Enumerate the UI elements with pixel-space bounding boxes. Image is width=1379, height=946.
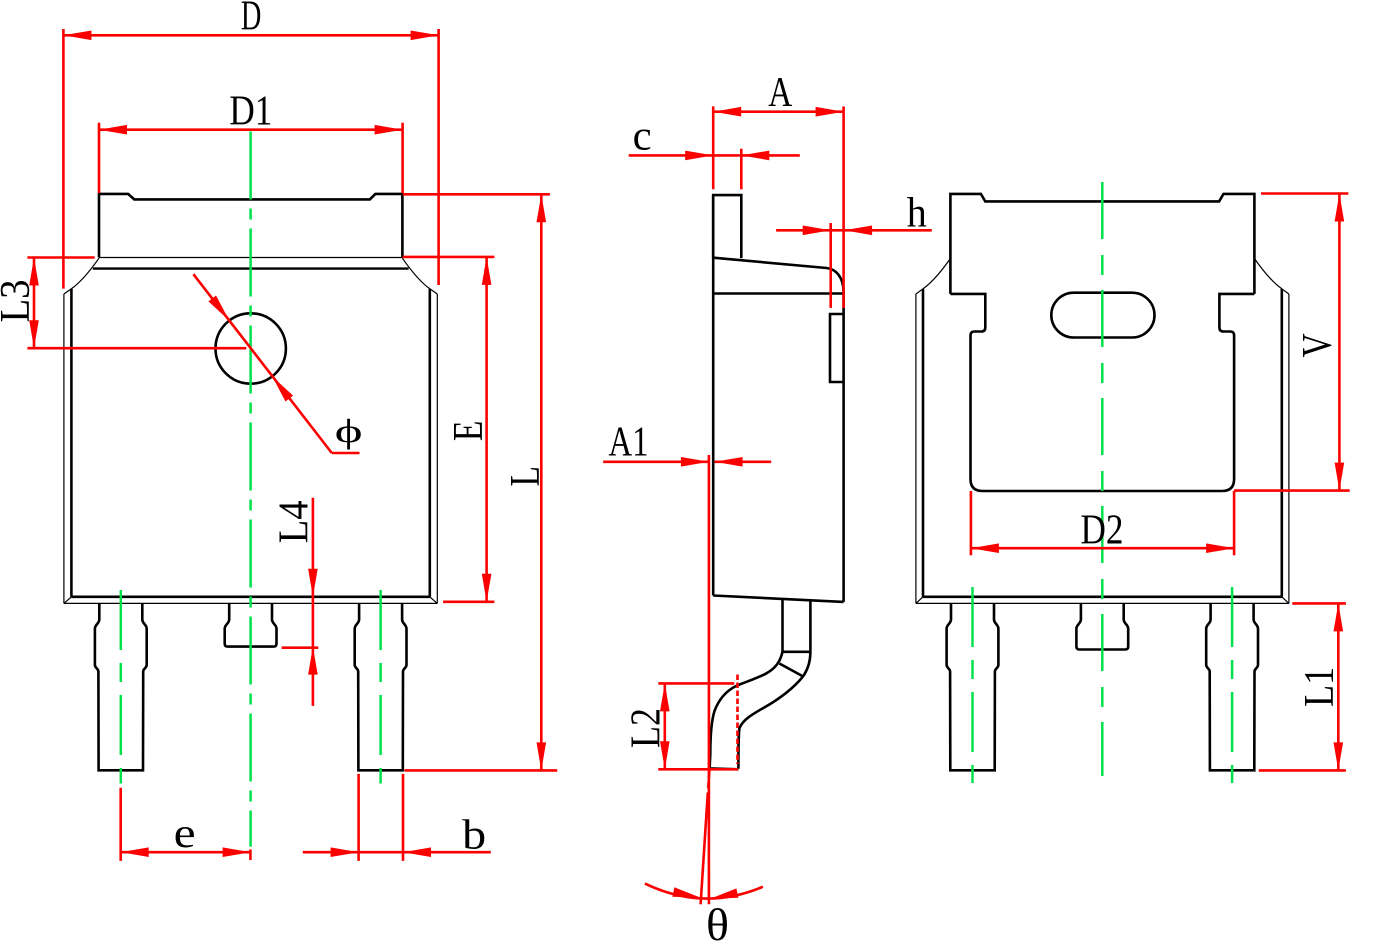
dimension L1 line <box>1334 603 1344 770</box>
theta vertical reference line <box>708 455 711 904</box>
back view: left body side <box>922 289 925 597</box>
svg-text:L4: L4 <box>272 500 318 543</box>
svg-text:L2: L2 <box>624 708 670 748</box>
svg-text:A: A <box>768 70 793 116</box>
svg-text:E: E <box>446 421 492 442</box>
front view: center stub lead <box>225 603 277 646</box>
back view: pad bottom edge <box>983 490 1223 493</box>
back view: body bottom outer line <box>916 602 1289 604</box>
front view: left body side <box>70 289 73 597</box>
side view: lead bend line top <box>783 650 811 653</box>
label L <box>503 466 549 487</box>
front view: vertical centerline <box>249 132 252 847</box>
dimension c line <box>629 151 800 161</box>
dimension L2 extension lines <box>658 683 738 769</box>
side view: side gate mark <box>830 314 844 382</box>
back view: left pad step <box>950 294 985 491</box>
svg-text:D1: D1 <box>229 88 272 134</box>
label c <box>633 114 652 160</box>
back view: bottom right chamfer <box>1282 597 1289 604</box>
dimension e extension line <box>119 788 122 861</box>
back view: center stub lead <box>1076 603 1128 649</box>
back view: right corner fillet <box>1254 259 1281 289</box>
side view: lead foot bottom <box>710 767 739 770</box>
side view: lead inner edge <box>738 652 810 769</box>
front view: left lead <box>95 603 147 770</box>
dimension D extension lines <box>63 29 438 289</box>
theta angle arc <box>645 884 763 899</box>
side view: body left edge <box>712 195 715 595</box>
dimension L4 line <box>282 498 319 706</box>
label V <box>1295 333 1341 357</box>
front view: right corner fillet <box>402 258 429 289</box>
dimension L1 extension lines <box>1259 603 1346 770</box>
back view: left lead <box>947 603 999 770</box>
label b <box>462 813 486 859</box>
dimension D2 line <box>971 543 1234 553</box>
front view: mounting hole <box>216 313 286 383</box>
dimension D2 extension lines <box>971 491 1234 555</box>
front view: right outer side line <box>436 294 438 603</box>
dimension L2 line <box>660 683 670 769</box>
dimension b extension lines <box>359 774 403 861</box>
hole diameter leader line <box>193 274 359 453</box>
dimension L3 line <box>29 258 39 349</box>
back view: right body side <box>1281 289 1284 597</box>
side view: lead upper section <box>783 599 811 652</box>
label L3 <box>0 280 39 323</box>
dimension h extension line <box>829 223 832 308</box>
back view: right edge chamfer <box>1282 289 1289 294</box>
label A <box>768 70 793 116</box>
front view: right lead <box>355 603 407 770</box>
dimension D line <box>63 31 438 41</box>
label phi <box>335 413 363 450</box>
dimension A1 line <box>603 457 771 467</box>
svg-text:A1: A1 <box>609 419 649 465</box>
svg-text:L3: L3 <box>0 280 39 323</box>
svg-text:c: c <box>633 114 652 160</box>
dimension c extension lines <box>713 106 741 189</box>
label e <box>174 811 196 857</box>
dimension L3 extension lines <box>27 258 246 349</box>
dimension L extension lines <box>403 194 558 770</box>
dimension D1 line <box>99 125 403 135</box>
back view: vertical centerline <box>1101 182 1104 776</box>
dimension E line <box>482 257 492 602</box>
front view: right lead centerline <box>379 590 382 784</box>
dimension V extension lines <box>1234 194 1350 491</box>
svg-text:D2: D2 <box>1081 507 1124 553</box>
front view: left edge chamfer <box>64 289 72 294</box>
front view: right edge chamfer <box>430 289 438 294</box>
dimension e right extension stub <box>249 850 252 861</box>
dimension E extension lines <box>403 257 495 602</box>
side view: lead outer edge <box>710 652 783 769</box>
label E <box>446 421 492 442</box>
back view: left outer side line <box>915 294 917 603</box>
side view: body bottom edge <box>713 596 843 602</box>
back view: right pad step <box>1219 294 1254 491</box>
side view: tab <box>713 195 741 258</box>
lead tangent dashed line <box>736 675 739 765</box>
front view: flange top edge <box>99 257 402 259</box>
back view: tab top outline <box>950 194 1254 294</box>
svg-text:h: h <box>907 190 927 236</box>
front view: body bottom edge <box>71 595 429 598</box>
front view: flange bottom edge <box>93 267 409 269</box>
label D <box>241 0 262 40</box>
svg-text:L: L <box>503 466 549 487</box>
svg-text:V: V <box>1295 333 1341 357</box>
dimension A extension line <box>842 107 845 309</box>
front view: right body side <box>428 289 431 597</box>
svg-text:D: D <box>241 0 262 40</box>
side view: top slant edge <box>713 258 843 293</box>
front view: bottom right chamfer <box>430 597 438 604</box>
back view: oblong hole <box>1051 293 1154 338</box>
label h <box>907 190 927 236</box>
label L2 <box>624 708 670 748</box>
back view: left corner fillet <box>923 259 950 289</box>
back view: body bottom edge <box>923 595 1282 598</box>
front view: left outer side line <box>63 294 65 603</box>
theta slanted lead axis <box>701 771 710 905</box>
label A1 <box>609 419 649 465</box>
label D2 <box>1081 507 1124 553</box>
back view: left edge chamfer <box>916 289 923 294</box>
front view: bottom left chamfer <box>64 597 72 604</box>
back view: bottom left chamfer <box>916 597 923 604</box>
dimension b line <box>303 847 491 857</box>
dimension A line <box>713 107 843 117</box>
svg-text:b: b <box>462 813 486 859</box>
side view: body right edge <box>842 293 845 602</box>
label theta <box>706 900 729 946</box>
svg-text:θ: θ <box>706 900 729 946</box>
svg-text:ϕ: ϕ <box>335 413 363 450</box>
back view: right lead centerline <box>1231 587 1234 783</box>
svg-text:e: e <box>174 811 196 857</box>
back view: right lead <box>1206 603 1258 770</box>
front view: body bottom outer line <box>64 602 437 604</box>
label L4 <box>272 500 318 543</box>
svg-text:L1: L1 <box>1297 667 1343 707</box>
front view: left corner fillet <box>71 258 99 289</box>
dimension V line <box>1335 194 1345 491</box>
front view: mounting tab outline <box>99 194 402 258</box>
back view: left lead centerline <box>971 587 974 783</box>
back view: right outer side line <box>1288 294 1290 603</box>
front view: left lead centerline <box>120 590 123 784</box>
dimension h line <box>776 226 932 236</box>
dimension e line <box>121 847 251 857</box>
dimension D1 extension lines <box>99 123 403 193</box>
label L1 <box>1297 667 1343 707</box>
side view: lead bend line diagonal <box>779 664 803 677</box>
side view: mold parting line <box>713 292 843 294</box>
label D1 <box>229 88 272 134</box>
dimension L line <box>537 194 547 770</box>
